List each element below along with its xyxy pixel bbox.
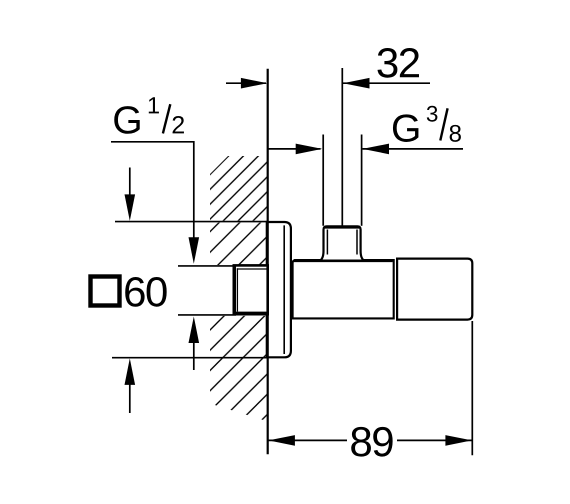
dim 89: left-pointing arrowhead at wall <box>268 435 295 446</box>
dim 60: down arrow tail <box>129 168 131 199</box>
dim G3/8: right extension <box>361 135 363 226</box>
label G3/8: denominator 8 <box>450 125 461 142</box>
dim G3/8: left line <box>269 148 321 150</box>
dim 89: right extension line <box>471 321 473 455</box>
G1/2 extension line top <box>178 265 236 267</box>
dim 32: left line <box>226 82 266 84</box>
wall nut inner chamfer top <box>237 268 268 270</box>
G1/2 extension line bottom <box>178 314 236 316</box>
wall face line <box>267 69 269 455</box>
G3/8 union connector fill <box>321 226 363 259</box>
wall hatching upper patch <box>210 156 268 221</box>
dim G3/8: left extension <box>322 135 324 226</box>
outlet piece <box>397 259 472 320</box>
label G3/8: numerator 3 <box>427 106 438 122</box>
dim 32: right line <box>343 82 430 84</box>
label G1/2: fraction slash <box>163 104 170 133</box>
valve body top edge (thick) <box>294 259 393 262</box>
label G1/2: down arrowhead <box>189 237 200 263</box>
connector inner line right <box>356 230 358 255</box>
escutcheon face line <box>283 225 285 354</box>
dim 89: right line <box>397 439 472 441</box>
wall nut left edge (thick) <box>233 265 236 314</box>
label G3/8: fraction slash <box>440 108 447 140</box>
wall hatching lower patch <box>210 316 268 422</box>
dim 60: up arrowhead <box>125 358 136 385</box>
wall hatching patch above nut <box>210 223 268 265</box>
dim 32: value text <box>377 48 419 78</box>
dim G3/8: left-pointing arrowhead <box>363 144 390 155</box>
dim 32: right arrowhead (points right at wall) <box>241 78 268 89</box>
connector inner line left <box>326 230 328 255</box>
dim 89: value text <box>351 427 392 457</box>
square-60 extension line bottom <box>112 357 267 359</box>
G1/2 wall nut <box>234 265 268 314</box>
dim 32: left arrowhead (points left at centerline) <box>343 78 370 89</box>
G1/2 up arrow tail <box>193 342 195 371</box>
dim 32: centerline extension <box>341 68 343 226</box>
label G1/2: leader line <box>111 142 194 239</box>
dim 89: right-pointing arrowhead <box>445 435 472 446</box>
label G1/2: G <box>114 106 139 134</box>
dim 60: value text <box>125 277 166 307</box>
escutcheon plate <box>267 222 291 357</box>
label G1/2: numerator 1 <box>149 97 159 113</box>
dim 89: left line <box>268 439 347 441</box>
G3/8 union connector outline <box>321 226 363 259</box>
label G1/2: denominator 2 <box>173 116 184 133</box>
dim 60: up arrow tail <box>129 383 131 413</box>
dim 60: down arrowhead <box>125 194 136 221</box>
square-60 extension line top <box>115 221 267 223</box>
dim G3/8: right line <box>363 148 464 150</box>
valve body <box>293 260 394 318</box>
dim G3/8: right-pointing arrowhead <box>296 144 323 155</box>
wall nut inner chamfer left <box>236 268 238 311</box>
connector top edge (thick) <box>325 226 360 229</box>
dim 60: square symbol <box>91 277 120 306</box>
wall nut bottom edge (thick) <box>234 312 268 315</box>
G1/2 up arrowhead <box>189 317 200 344</box>
label G3/8: G <box>393 114 418 142</box>
